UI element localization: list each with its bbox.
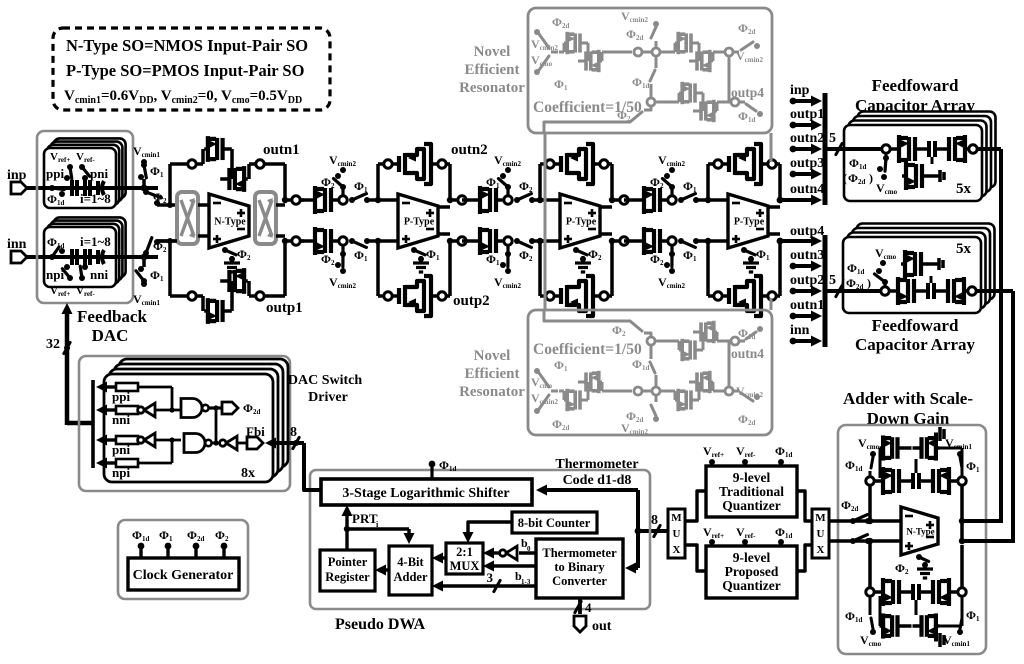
resonator bottom coefficient label	[533, 341, 642, 358]
counter box	[512, 512, 597, 533]
resonator top phi1d label	[632, 75, 649, 90]
svg-text:X: X	[817, 544, 825, 556]
svg-text:outp2: outp2	[453, 293, 490, 309]
resonator bottom node circles	[634, 387, 660, 395]
driver inverter nni	[138, 403, 181, 417]
DAC switch driver cards	[104, 359, 288, 482]
stage1 output wires	[276, 196, 304, 245]
resonator link wire right bottom	[770, 298, 773, 310]
pointer register box	[320, 550, 375, 591]
stage x745 tail switch	[741, 247, 770, 272]
svg-text:Efficient: Efficient	[465, 62, 520, 78]
feedforward bottom card stack	[843, 224, 995, 314]
feedback DAC top card circuit	[44, 164, 116, 197]
DAC switch driver label	[288, 373, 362, 405]
resonator bottom tap switch	[651, 395, 659, 422]
bus 8 from DWA	[265, 425, 321, 490]
svg-text:Clock Generator: Clock Generator	[133, 568, 234, 583]
feedforward top labels	[843, 156, 898, 196]
svg-text:outp1: outp1	[790, 107, 824, 122]
svg-text:Capacitor Array: Capacitor Array	[855, 335, 976, 354]
svg-text:inp: inp	[790, 83, 810, 98]
svg-text:P-Type: P-Type	[734, 217, 765, 228]
adder feedforward inputs	[962, 521, 1013, 541]
svg-text:0: 0	[527, 545, 531, 553]
svg-text:): )	[869, 171, 873, 185]
feedforward 5x label bottom	[956, 241, 972, 257]
svg-text:Novel: Novel	[474, 44, 511, 60]
feedforward bottom upper MOS	[901, 250, 943, 283]
input terminal inp	[7, 168, 44, 194]
svg-text:Quantizer: Quantizer	[722, 578, 781, 593]
svg-text:MUX: MUX	[450, 559, 480, 573]
net Vcmin2 label x311 top	[329, 153, 356, 168]
bus arrow outp1	[790, 107, 825, 131]
resonator bottom inner vertical	[728, 341, 731, 387]
svg-text:Pointer: Pointer	[328, 555, 368, 569]
svg-text:outp1: outp1	[266, 300, 303, 316]
driver phi2d terminal	[208, 401, 260, 416]
net label outn1	[263, 142, 300, 158]
b0 second wire	[483, 561, 536, 572]
feedforward bottom MOS pair	[890, 277, 969, 305]
svg-text:Fbi: Fbi	[246, 424, 265, 439]
DAC switch driver box	[79, 356, 290, 491]
feedback DAC bottom card stack	[44, 217, 126, 287]
op-amp P-Type x745	[728, 194, 768, 248]
svg-text:Coefficient=1/50: Coefficient=1/50	[533, 341, 642, 358]
novel efficient resonator label bottom	[459, 348, 525, 400]
input terminal inn	[7, 237, 44, 263]
driver 8x label	[241, 466, 255, 481]
svg-text:N-Type: N-Type	[214, 217, 246, 228]
svg-text:Thermometer: Thermometer	[542, 546, 617, 560]
svg-text:outn2: outn2	[451, 142, 488, 158]
svg-text:5: 5	[829, 131, 836, 146]
resonator top label Vcmin2 left	[531, 37, 558, 52]
driver inverter pni	[138, 433, 181, 447]
svg-text:to Binary: to Binary	[554, 560, 605, 574]
feedforward top MOS pair	[891, 135, 970, 163]
svg-text:outn4: outn4	[790, 182, 824, 197]
svg-text:Quantizer: Quantizer	[722, 498, 781, 513]
rail wire s3-s4 top	[624, 198, 640, 202]
resonator top phi2 wire	[544, 106, 651, 133]
feedforward top wire	[827, 147, 881, 151]
driver row ppi	[96, 382, 138, 405]
svg-text:Driver: Driver	[308, 390, 348, 405]
svg-text:P-Type: P-Type	[566, 217, 597, 228]
stage x415 input node wires	[375, 164, 398, 296]
stage P-Type x577 bottom feedback MOS	[540, 276, 612, 316]
svg-text:outp3: outp3	[790, 156, 824, 171]
mux21 box	[446, 543, 483, 574]
driver nand2	[138, 434, 212, 464]
clock tap phi1d	[132, 528, 149, 558]
clock tap phi1	[159, 528, 173, 558]
chopper input	[177, 192, 198, 244]
svg-text:(: (	[843, 171, 847, 185]
svg-text:P-Type: P-Type	[404, 217, 435, 228]
resonator bottom tap labels	[621, 409, 648, 436]
resonator bottom MOS cluster2	[660, 371, 733, 411]
svg-text:Converter: Converter	[552, 574, 607, 588]
svg-text:Efficient: Efficient	[465, 366, 520, 382]
bus arrow outp3	[790, 156, 825, 180]
adder top cluster verticals	[867, 486, 965, 545]
clock generator outer box	[118, 520, 248, 599]
adder box	[838, 425, 986, 654]
feedforward bottom title	[855, 316, 976, 354]
resonator bottom label phi2d left	[552, 417, 569, 432]
bus arrow outn3	[790, 248, 825, 272]
op-amp N-Type stage1	[209, 194, 249, 248]
feedforward top lower MOS	[902, 157, 944, 190]
feedback DAC bottom card labels	[46, 234, 111, 298]
adder top upper MOS pair	[880, 427, 963, 478]
resonator top right switch upper	[733, 42, 760, 52]
stage P-Type x745 bottom feedback MOS	[708, 276, 780, 316]
svg-text:pni: pni	[112, 442, 130, 457]
feedforward bottom tap	[875, 260, 889, 287]
stage1 tail switch	[222, 247, 251, 272]
stage x415 tail switch	[411, 247, 440, 272]
op-amp P-Type x415	[398, 194, 438, 248]
svg-text:9-level: 9-level	[733, 550, 771, 565]
chopper output	[255, 192, 276, 244]
legend box	[53, 28, 330, 110]
svg-text:outp4: outp4	[790, 224, 824, 239]
sampling network x640 bottom rail	[640, 227, 708, 274]
adder tail switch	[895, 554, 933, 578]
rail wire s3-s4 bottom	[624, 239, 640, 243]
feedforward bottom output wire	[1011, 291, 1015, 543]
out wire	[574, 598, 612, 634]
stage x415 output node wires	[438, 164, 467, 296]
svg-text:N-Type SO=NMOS Input-Pair SO: N-Type SO=NMOS Input-Pair SO	[66, 36, 308, 55]
adder bottom cluster verticals	[867, 538, 962, 588]
svg-text:Feedfoward: Feedfoward	[872, 76, 959, 95]
resonator bottom label Vcmin2 left	[531, 391, 558, 406]
adder input rails	[829, 521, 901, 541]
resonator top left switches	[534, 29, 558, 75]
resonator top right switch lower	[739, 102, 763, 117]
op-amp P-Type x577	[560, 194, 600, 248]
quantizer mux right box	[812, 509, 829, 558]
stage1 input wires	[157, 164, 209, 296]
shifter phi1d tap	[429, 458, 457, 479]
traditional quantizer box	[706, 466, 797, 517]
svg-text:9-level: 9-level	[733, 470, 771, 485]
resonator top MOS cluster1	[559, 32, 632, 72]
adder4 box	[389, 546, 432, 595]
b0 inverter	[483, 536, 536, 560]
stage P-Type x415 top feedback MOS	[378, 144, 450, 184]
svg-text:3-Stage Logarithmic Shifter: 3-Stage Logarithmic Shifter	[342, 486, 509, 501]
adder top taps	[845, 436, 980, 477]
feedforward top node right	[969, 145, 1001, 153]
bus arrow outn2	[790, 131, 825, 155]
svg-text:4: 4	[585, 600, 592, 615]
svg-text:DAC: DAC	[92, 326, 129, 345]
sampling network x640 top rail	[640, 167, 708, 214]
sampling network x476 bottom rail	[476, 227, 544, 274]
svg-text:X: X	[673, 544, 681, 556]
feedback DAC label	[77, 307, 147, 345]
PRT wire	[342, 505, 415, 550]
resonator top node circles	[634, 48, 660, 56]
svg-text:5x: 5x	[956, 241, 972, 257]
resonator top branch switch phi1d	[647, 56, 656, 106]
resonator bottom phi1d label	[632, 357, 649, 372]
sampling network x311 bottom rail	[311, 227, 379, 274]
bus arrow outp2	[790, 273, 825, 297]
adder bottom lower MOS pair	[880, 596, 963, 647]
stage P-Type x745 top feedback MOS	[708, 144, 780, 184]
traditional quantizer taps	[703, 444, 792, 466]
stage x577 output node wires	[600, 164, 629, 296]
feedback DAC top card labels	[46, 151, 111, 207]
resonator link wire right top	[770, 133, 773, 162]
clock generator rect	[128, 558, 239, 590]
stage1 bottom feedback pair	[188, 238, 288, 324]
counter wire	[463, 522, 513, 543]
svg-text:1-3: 1-3	[521, 578, 531, 586]
svg-text:ppi: ppi	[112, 389, 130, 404]
svg-text:Proposed: Proposed	[725, 564, 779, 579]
b1-3 wire	[432, 569, 536, 592]
svg-text:nni: nni	[112, 412, 130, 427]
proposed quantizer taps	[703, 525, 792, 546]
adder bottom taps	[845, 597, 980, 649]
feedback DAC top card stack	[44, 138, 126, 208]
op-amp adder N-Type	[901, 507, 938, 555]
pseudo DWA box	[310, 470, 650, 609]
resonator top label Vcmo left	[531, 53, 553, 68]
svg-text:Adder: Adder	[393, 570, 427, 584]
sampling network x476 top rail	[476, 167, 544, 214]
svg-text:): )	[867, 276, 871, 290]
adder top cluster	[866, 467, 966, 495]
net label outp1	[266, 300, 303, 316]
feedforward bottom node right	[968, 287, 1013, 295]
svg-text:U: U	[817, 528, 825, 540]
resonator top tap switch	[651, 21, 659, 48]
wire outp4 to bus	[777, 238, 814, 245]
feedforward bottom wire	[827, 289, 880, 293]
thermometer code bus	[536, 485, 668, 574]
Vcmin1 switch stack inn	[116, 238, 177, 307]
thermometer to binary box	[536, 539, 623, 598]
quantizer mux left box	[668, 509, 685, 558]
resonator top coefficient label	[533, 99, 642, 116]
driver row npi	[96, 458, 138, 481]
svg-text:Adder with Scale-: Adder with Scale-	[843, 389, 973, 408]
bus arrow inp	[790, 83, 822, 107]
stage x577 tail switch	[573, 247, 602, 272]
adder rail switches	[841, 498, 871, 544]
bus 5 label bottom	[829, 273, 842, 297]
feedforward top output wire	[999, 149, 1003, 523]
feedback DAC bottom card circuit	[44, 247, 116, 281]
svg-text:i=1~8: i=1~8	[80, 234, 111, 249]
rail wire s2-s3 bottom	[462, 239, 476, 243]
DAC driver left bus	[91, 380, 95, 468]
svg-text:nni: nni	[90, 267, 108, 282]
svg-text:4-Bit: 4-Bit	[397, 555, 424, 569]
feedforward top node left	[882, 145, 890, 153]
feedforward top tap	[877, 154, 889, 181]
svg-text:8: 8	[290, 425, 297, 440]
resonator bottom label Vcmo left	[531, 375, 553, 390]
feedforward 5x label top	[956, 181, 972, 197]
wire outn4 to bus	[777, 197, 814, 204]
svg-text:Code d1-d8: Code d1-d8	[563, 473, 632, 488]
resonator bottom phi2 label	[612, 323, 626, 338]
feedback DAC outer box	[37, 131, 133, 303]
feedforward top card stack	[844, 112, 996, 202]
adder bottom cluster	[866, 578, 966, 606]
svg-text:inp: inp	[7, 168, 27, 183]
svg-text:outn3: outn3	[790, 248, 824, 263]
svg-text:M: M	[671, 512, 682, 524]
mux21-adder wire	[432, 553, 446, 564]
feedforward bottom node left	[881, 287, 889, 295]
mux-quantizer wires right	[797, 491, 812, 571]
driver row pni	[96, 435, 138, 458]
bus arrow inn	[790, 323, 822, 347]
svg-text:Resonator: Resonator	[459, 80, 525, 96]
adder-register wire	[375, 565, 389, 576]
resonator bottom right switch upper	[733, 391, 760, 401]
feedforward top title	[855, 76, 976, 115]
feedforward bottom bus bar	[823, 235, 828, 347]
resonator top phi2 label	[617, 108, 631, 123]
feedforward bottom labels	[841, 246, 897, 291]
thermometer code label	[555, 457, 638, 488]
svg-text:P-Type SO=PMOS Input-Pair SO: P-Type SO=PMOS Input-Pair SO	[66, 61, 305, 80]
svg-text:DAC Switch: DAC Switch	[288, 373, 362, 388]
svg-text:pni: pni	[90, 166, 108, 181]
rail wire s1-s2 top	[300, 198, 311, 202]
svg-text:ppi: ppi	[46, 166, 64, 181]
resonator top tap labels	[621, 9, 648, 42]
stage x745 input node wires	[705, 164, 728, 296]
svg-text:Pseudo DWA: Pseudo DWA	[335, 616, 426, 633]
svg-text:Traditional: Traditional	[719, 484, 784, 499]
net label outp2	[453, 293, 490, 309]
resonator bottom phi2 wire	[544, 310, 651, 337]
resonator top label phi2d left	[552, 15, 569, 30]
svg-text:8-bit Counter: 8-bit Counter	[518, 516, 591, 530]
svg-text:out: out	[592, 619, 612, 634]
resonator top label phi1 left	[554, 77, 568, 92]
svg-text:inn: inn	[7, 237, 27, 252]
bus 32 wire	[46, 303, 93, 425]
svg-text:npi: npi	[112, 465, 130, 480]
svg-text:8: 8	[651, 513, 658, 528]
svg-text:Novel: Novel	[474, 348, 511, 364]
svg-text:U: U	[673, 528, 681, 540]
svg-text:32: 32	[46, 337, 60, 352]
svg-text:Thermometer: Thermometer	[555, 457, 638, 472]
svg-text:outn1: outn1	[790, 298, 824, 313]
svg-text:outn1: outn1	[263, 142, 300, 158]
driver nand1	[138, 387, 209, 418]
svg-text:outn4: outn4	[731, 346, 764, 361]
resonator top right labels	[731, 21, 764, 124]
shifter box	[321, 479, 532, 505]
resonator top MOS cluster2	[660, 32, 733, 72]
clock tap phi2d	[187, 528, 204, 558]
driver cross wire	[213, 405, 218, 445]
stage1 top feedback pair	[188, 136, 288, 203]
net Vcmin2 label x476 top	[494, 153, 521, 168]
net label outn2	[451, 142, 488, 158]
svg-text:3: 3	[487, 570, 494, 585]
resonator bottom right labels	[731, 326, 764, 427]
svg-text:Feedfoward: Feedfoward	[872, 316, 959, 335]
clock generator label	[133, 568, 234, 583]
resonator bottom label phi1 left	[554, 358, 568, 373]
proposed quantizer box	[706, 546, 797, 598]
bus arrow outn4	[790, 182, 824, 206]
svg-text:outp4: outp4	[731, 85, 764, 100]
resonator bottom MOS cluster3	[655, 321, 739, 361]
pseudo DWA label	[335, 616, 426, 633]
svg-text:outp2: outp2	[790, 273, 824, 288]
resonator bottom right switch lower	[739, 326, 763, 341]
stage P-Type x577 top feedback MOS	[540, 144, 612, 184]
driver fbi terminal	[246, 424, 265, 449]
svg-text:2:1: 2:1	[456, 545, 473, 559]
feedforward top bus bar	[823, 93, 828, 205]
bus arrow outp4	[790, 224, 824, 247]
novel efficient resonator label top	[459, 44, 525, 96]
svg-text:5: 5	[829, 273, 836, 288]
resonator link wire left	[544, 133, 547, 310]
net Vcmin2 label x476 bottom	[494, 275, 521, 290]
resonator top MOS cluster3	[655, 82, 739, 122]
net Vcmin2 label x640 bottom	[658, 275, 685, 290]
stage P-Type x415 bottom feedback MOS	[378, 276, 450, 316]
resonator top box	[528, 8, 772, 133]
Vcmin1 switch stack inp	[116, 144, 177, 206]
mux-quantizer wires left	[685, 491, 706, 571]
net Vcmin2 label x311 bottom	[329, 275, 356, 290]
rail wire s1-s2 bottom	[300, 239, 311, 243]
net Vcmin2 label x640 top	[658, 153, 685, 168]
rail wire s2-s3 top	[462, 198, 476, 202]
svg-text:Feedback: Feedback	[77, 307, 147, 326]
sampling network x311 top rail	[311, 167, 379, 214]
resonator bottom MOS cluster1	[559, 371, 632, 411]
resonator bottom left switches	[534, 368, 558, 414]
svg-text:8x: 8x	[241, 466, 255, 481]
svg-text:M: M	[815, 512, 826, 524]
svg-text:5x: 5x	[956, 181, 972, 197]
resonator bottom box	[528, 310, 772, 435]
svg-text:(: (	[841, 276, 845, 290]
svg-text:inn: inn	[790, 323, 810, 338]
svg-text:Resonator: Resonator	[459, 384, 525, 400]
adder title	[843, 389, 973, 428]
clock tap phi2	[215, 528, 229, 558]
driver fbi inverter	[211, 436, 247, 450]
stage x577 input node wires	[537, 164, 560, 296]
svg-text:PRT: PRT	[352, 511, 378, 526]
driver row nni	[96, 405, 138, 428]
